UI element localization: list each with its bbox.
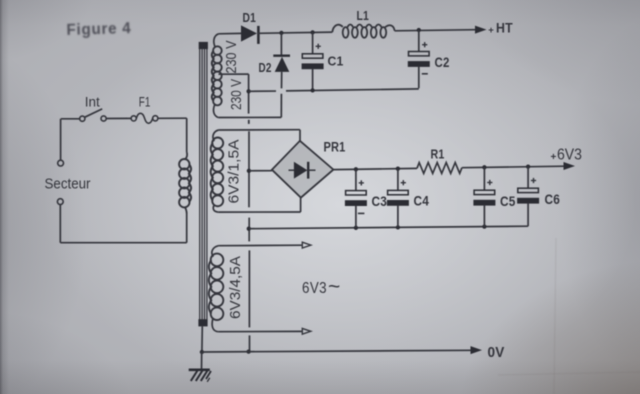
capacitor C6: [527, 167, 529, 189]
svg-text:C5: C5: [500, 194, 516, 209]
svg-text:L1: L1: [357, 9, 370, 23]
svg-text:6V3: 6V3: [302, 280, 327, 297]
wire 6V3 winding top to bridge: [219, 129, 300, 131]
capacitor C3: [355, 169, 357, 190]
faint paper crease lines: [554, 238, 556, 394]
diode D1: [241, 25, 257, 41]
minus rail under caps: [249, 226, 528, 229]
svg-text:HT: HT: [496, 21, 513, 36]
bridge rectifier PR1: [272, 141, 334, 198]
svg-text:230 V: 230 V: [223, 40, 240, 73]
HT return rail: [249, 90, 276, 92]
svg-text:+: +: [551, 152, 557, 163]
junction D2: [279, 31, 283, 35]
0V rail: [202, 350, 471, 352]
wire mains top-left: [61, 118, 80, 120]
wire R1 to +6V3: [462, 166, 564, 168]
svg-text:6V3/1,5A: 6V3/1,5A: [227, 139, 243, 203]
wire bridge minus to return: [249, 170, 272, 172]
svg-text:0V: 0V: [488, 344, 505, 361]
junction C2 top: [417, 28, 421, 32]
svg-text:C2: C2: [435, 55, 450, 70]
junction bridge minus: [247, 169, 251, 173]
diode D2: [280, 33, 282, 55]
junction C1 bottom: [310, 88, 314, 92]
wire 230V center tap: [219, 73, 249, 75]
transformer core laminations: [199, 44, 201, 322]
svg-text:~: ~: [328, 276, 341, 299]
svg-text:Secteur: Secteur: [45, 176, 91, 193]
arrow 0V: [471, 346, 483, 354]
svg-text:6V3/4,5A: 6V3/4,5A: [228, 256, 244, 319]
wire switch to fuse: [106, 117, 131, 119]
svg-text:PR1: PR1: [324, 140, 346, 155]
svg-text:Figure 4: Figure 4: [66, 20, 131, 39]
svg-text:C4: C4: [414, 194, 430, 209]
wire heater output lower: [218, 330, 302, 332]
wire bridge plus to R1: [333, 168, 417, 169]
svg-text:230 V: 230 V: [228, 79, 245, 110]
transformer primary winding: [186, 118, 188, 152]
wire return vertical middle: [248, 131, 250, 207]
svg-text:C3: C3: [372, 194, 388, 209]
wire 6V3 winding bottom to bridge: [218, 211, 300, 213]
svg-text:Int: Int: [85, 95, 100, 110]
svg-text:D1: D1: [243, 11, 257, 25]
inductor L1: [343, 27, 349, 38]
capacitor C1: [312, 32, 314, 53]
wire D1 to L1: [258, 32, 333, 33]
arrow +6V3: [564, 162, 576, 170]
terminal secteur upper: [60, 119, 62, 160]
secondary winding 230V+230V: [214, 34, 219, 47]
wire core to ground: [201, 326, 203, 352]
junction center tap / return rail: [246, 89, 250, 93]
svg-text:+: +: [488, 25, 494, 36]
wire 230V winding bottom: [218, 116, 281, 118]
wire fuse to transformer primary: [158, 117, 187, 119]
svg-text:R1: R1: [431, 147, 445, 162]
capacitor C4: [397, 169, 399, 191]
svg-text:F1: F1: [139, 95, 151, 110]
wire mains bottom: [60, 242, 186, 244]
title Figure 4: [66, 20, 131, 39]
arrow +HT: [475, 26, 487, 34]
secondary winding 6V3/1,5A: [213, 130, 219, 141]
svg-text:C1: C1: [328, 54, 344, 69]
ground symbol: [201, 352, 203, 370]
wire L1 to +HT: [395, 30, 476, 31]
resistor R1: [417, 163, 462, 174]
terminal secteur lower: [57, 199, 63, 205]
switch Int: [80, 116, 85, 121]
fuse F1: [131, 116, 136, 121]
capacitor C2: [418, 30, 420, 52]
junction ground / 0V rail: [200, 350, 204, 354]
svg-text:D2: D2: [259, 60, 272, 75]
svg-text:6V3: 6V3: [557, 146, 582, 163]
junction minus rail: [247, 227, 251, 231]
secondary winding 6V3/4,5A: [212, 246, 219, 257]
wire secondary top to D1: [219, 32, 241, 34]
wire HT return vertical: [248, 74, 250, 114]
junction C1 top: [310, 30, 314, 34]
capacitor C5: [483, 167, 485, 190]
svg-text:C6: C6: [545, 192, 561, 207]
wire heater output upper: [219, 244, 302, 247]
